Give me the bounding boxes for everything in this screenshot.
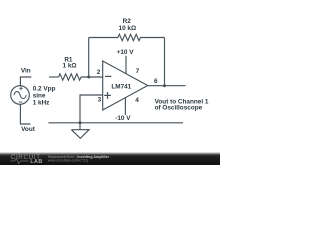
- junction pin3/ground: [79, 121, 82, 124]
- wire feedback left vertical: [88, 38, 90, 78]
- wire bottom: [48, 122, 183, 124]
- svg-text:7: 7: [136, 68, 140, 75]
- voltage source minus mark: [19, 101, 23, 103]
- wire pin 7 stub: [125, 56, 127, 74]
- wire R2 top left lead: [89, 37, 118, 39]
- wire output: [148, 85, 186, 87]
- ground: [71, 123, 89, 139]
- svg-text:2: 2: [97, 69, 101, 76]
- wire R2 right lead: [141, 37, 165, 39]
- svg-text:-10 V: -10 V: [115, 115, 131, 122]
- svg-text:R2: R2: [123, 18, 132, 25]
- svg-text:+10 V: +10 V: [117, 49, 135, 56]
- wire feedback right vertical: [164, 38, 166, 86]
- svg-text:10 kΩ: 10 kΩ: [119, 25, 137, 32]
- resistor R2: [118, 34, 141, 40]
- wire pin 3: [80, 95, 103, 123]
- node Vout flag: [20, 104, 30, 124]
- wire R1 left lead: [49, 76, 59, 78]
- wire pin 4 stub: [124, 98, 126, 116]
- svg-text:1 kHz: 1 kHz: [33, 100, 50, 107]
- footer logo waveform: [11, 158, 29, 163]
- svg-text:6: 6: [154, 78, 158, 85]
- svg-text:0.2 Vpp: 0.2 Vpp: [33, 85, 56, 92]
- wire R1 to pin 2: [81, 76, 103, 78]
- resistor R1: [59, 74, 81, 80]
- op-amp U1 triangle: [103, 61, 148, 110]
- svg-text:Vout: Vout: [21, 126, 36, 133]
- svg-text:Vin: Vin: [21, 68, 31, 75]
- svg-text:4: 4: [135, 97, 139, 104]
- svg-text:LM741: LM741: [111, 83, 131, 90]
- voltage source V1 circle: [11, 86, 30, 105]
- svg-text:of Oscilloscope: of Oscilloscope: [155, 105, 203, 112]
- voltage source plus mark: [19, 87, 23, 91]
- svg-text:3: 3: [98, 96, 102, 103]
- svg-text:www.circuitlab.com/c721j: www.circuitlab.com/c721j: [48, 158, 88, 162]
- svg-text:LAB: LAB: [30, 159, 43, 165]
- op-amp minus sign: [105, 75, 111, 77]
- node Vin flag: [20, 77, 31, 86]
- voltage source sine wave: [14, 92, 26, 99]
- svg-text:sine: sine: [33, 93, 46, 100]
- junction R1/R2/pin2: [87, 76, 90, 79]
- junction output/R2: [163, 84, 166, 87]
- op-amp plus sign: [104, 92, 111, 99]
- svg-text:1 kΩ: 1 kΩ: [62, 63, 76, 70]
